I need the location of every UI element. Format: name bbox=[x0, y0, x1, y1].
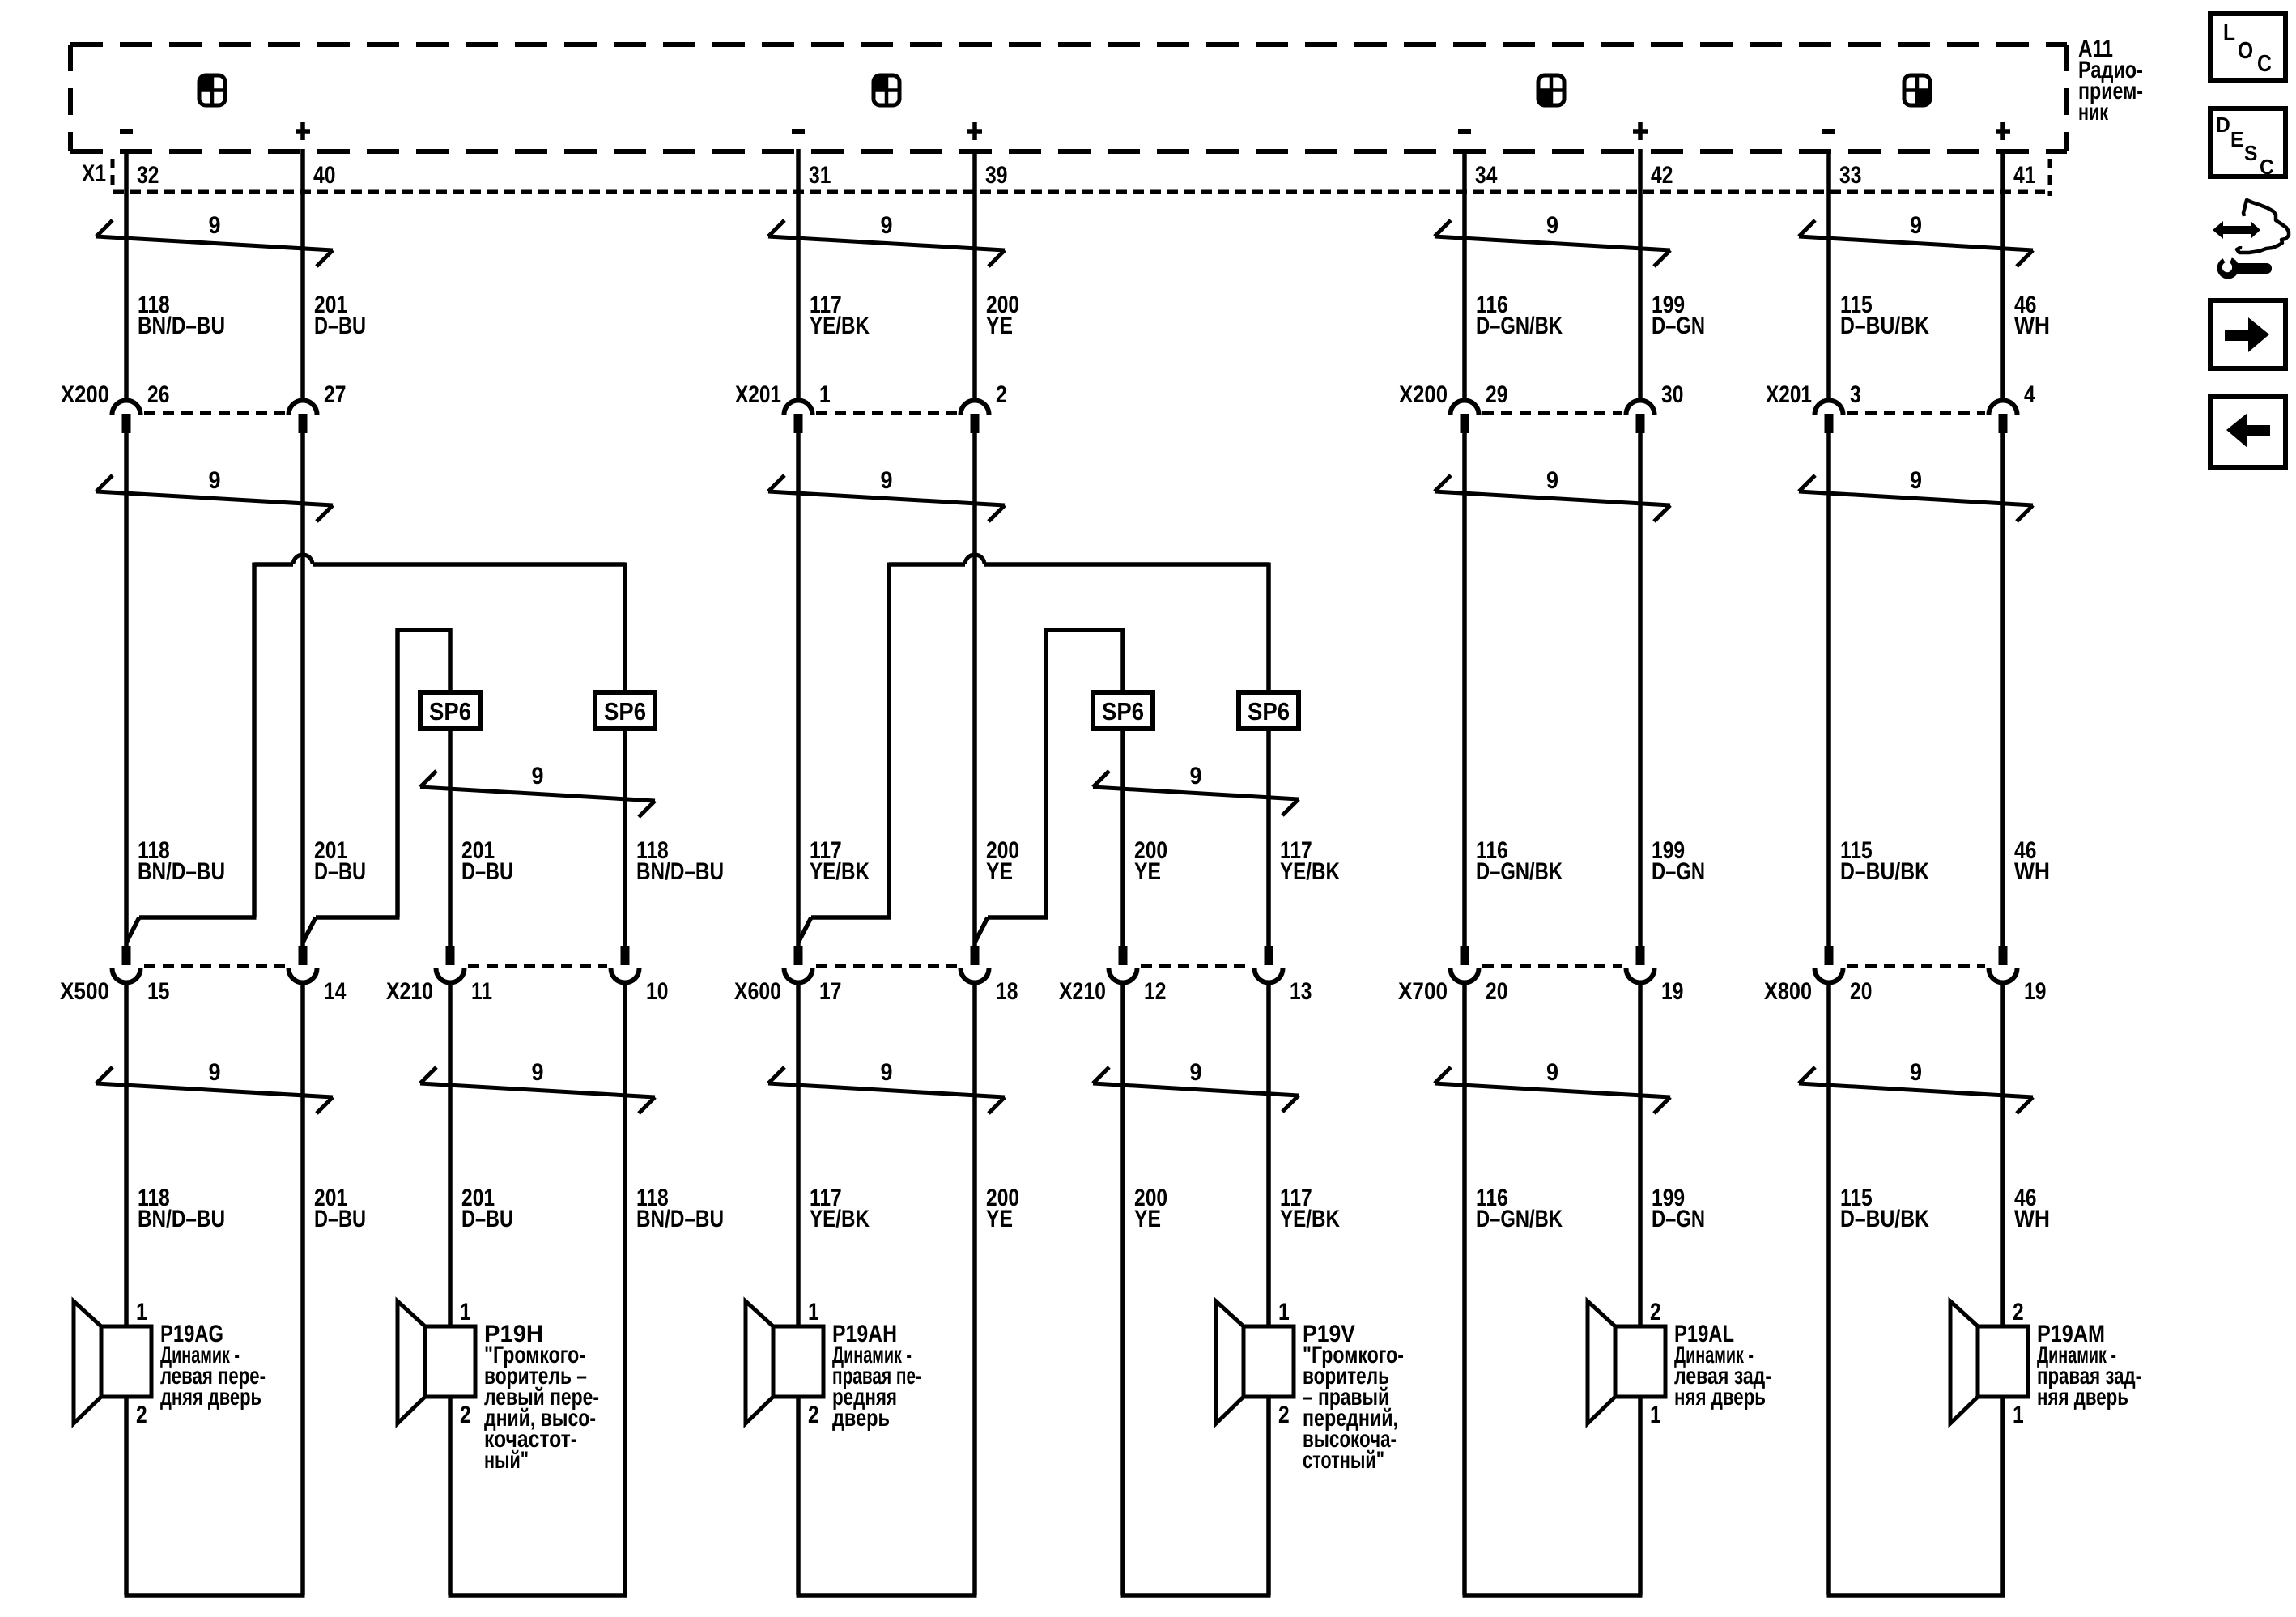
svg-text:1: 1 bbox=[136, 1299, 147, 1326]
svg-text:41: 41 bbox=[2013, 162, 2035, 189]
svg-text:D–BU/BK: D–BU/BK bbox=[1840, 1206, 1929, 1232]
svg-text:1: 1 bbox=[460, 1299, 471, 1326]
svg-text:13: 13 bbox=[1290, 978, 1312, 1005]
svg-text:31: 31 bbox=[809, 162, 831, 189]
svg-text:D–BU/BK: D–BU/BK bbox=[1840, 858, 1929, 885]
svg-text:39: 39 bbox=[985, 162, 1007, 189]
svg-text:12: 12 bbox=[1144, 978, 1166, 1005]
svg-text:D–BU: D–BU bbox=[314, 858, 366, 885]
svg-text:3: 3 bbox=[1850, 381, 1861, 408]
svg-text:9: 9 bbox=[1190, 763, 1202, 789]
svg-text:X500: X500 bbox=[60, 978, 109, 1005]
svg-text:SP6: SP6 bbox=[1102, 697, 1144, 726]
svg-text:YE: YE bbox=[986, 858, 1013, 885]
svg-text:BN/D–BU: BN/D–BU bbox=[636, 858, 724, 885]
svg-text:C: C bbox=[2260, 155, 2274, 179]
svg-text:1: 1 bbox=[1650, 1402, 1661, 1428]
svg-text:9: 9 bbox=[881, 212, 893, 239]
svg-text:YE/BK: YE/BK bbox=[810, 1206, 870, 1232]
svg-text:9: 9 bbox=[209, 1059, 221, 1086]
svg-text:O: O bbox=[2238, 38, 2253, 64]
svg-text:9: 9 bbox=[532, 1059, 544, 1086]
svg-text:29: 29 bbox=[1486, 381, 1507, 408]
svg-text:X210: X210 bbox=[1059, 978, 1106, 1005]
svg-text:19: 19 bbox=[2024, 978, 2046, 1005]
svg-text:D–GN/BK: D–GN/BK bbox=[1476, 858, 1563, 885]
svg-text:D: D bbox=[2216, 113, 2230, 137]
svg-text:9: 9 bbox=[1190, 1059, 1202, 1086]
svg-text:BN/D–BU: BN/D–BU bbox=[138, 313, 225, 339]
svg-text:9: 9 bbox=[1910, 1059, 1922, 1086]
svg-text:4: 4 bbox=[2024, 381, 2035, 408]
svg-text:D–BU: D–BU bbox=[314, 1206, 366, 1232]
svg-text:D–GN: D–GN bbox=[1652, 858, 1705, 885]
svg-text:SP6: SP6 bbox=[604, 697, 646, 726]
svg-text:D–BU: D–BU bbox=[461, 1206, 513, 1232]
svg-text:S: S bbox=[2244, 141, 2257, 165]
svg-text:дверь: дверь bbox=[832, 1405, 890, 1432]
svg-text:2: 2 bbox=[136, 1402, 147, 1428]
svg-text:BN/D–BU: BN/D–BU bbox=[138, 1206, 225, 1232]
svg-text:2: 2 bbox=[808, 1402, 819, 1428]
svg-text:X200: X200 bbox=[61, 381, 109, 408]
svg-text:X800: X800 bbox=[1764, 978, 1812, 1005]
svg-text:D–BU: D–BU bbox=[461, 858, 513, 885]
svg-text:D–GN: D–GN bbox=[1652, 1206, 1705, 1232]
svg-text:D–BU: D–BU bbox=[314, 313, 366, 339]
svg-text:X700: X700 bbox=[1398, 978, 1448, 1005]
svg-text:11: 11 bbox=[471, 978, 492, 1005]
svg-text:C: C bbox=[2257, 51, 2272, 77]
svg-text:стотный": стотный" bbox=[1303, 1447, 1384, 1474]
svg-text:няя дверь: няя дверь bbox=[2037, 1384, 2128, 1411]
svg-text:YE/BK: YE/BK bbox=[810, 313, 870, 339]
svg-text:D–GN: D–GN bbox=[1652, 313, 1705, 339]
svg-text:BN/D–BU: BN/D–BU bbox=[138, 858, 225, 885]
svg-text:30: 30 bbox=[1661, 381, 1683, 408]
svg-text:9: 9 bbox=[881, 1059, 893, 1086]
svg-text:2: 2 bbox=[1278, 1402, 1290, 1428]
svg-text:WH: WH bbox=[2014, 313, 2050, 339]
svg-text:SP6: SP6 bbox=[1248, 697, 1290, 726]
svg-text:34: 34 bbox=[1475, 162, 1498, 189]
svg-text:ный": ный" bbox=[484, 1447, 529, 1474]
svg-text:YE/BK: YE/BK bbox=[810, 858, 870, 885]
svg-text:2: 2 bbox=[996, 381, 1007, 408]
svg-text:27: 27 bbox=[324, 381, 346, 408]
svg-text:33: 33 bbox=[1839, 162, 1861, 189]
svg-text:9: 9 bbox=[1910, 467, 1922, 494]
svg-text:YE: YE bbox=[986, 1206, 1013, 1232]
svg-text:X201: X201 bbox=[1766, 381, 1812, 408]
svg-text:BN/D–BU: BN/D–BU bbox=[636, 1206, 724, 1232]
svg-text:YE: YE bbox=[986, 313, 1013, 339]
svg-text:15: 15 bbox=[147, 978, 169, 1005]
svg-text:9: 9 bbox=[209, 467, 221, 494]
svg-text:няя дверь: няя дверь bbox=[1674, 1384, 1766, 1411]
svg-text:20: 20 bbox=[1850, 978, 1872, 1005]
svg-text:9: 9 bbox=[1546, 212, 1558, 239]
svg-text:40: 40 bbox=[313, 162, 335, 189]
svg-text:2: 2 bbox=[460, 1402, 471, 1428]
svg-text:YE/BK: YE/BK bbox=[1280, 1206, 1340, 1232]
svg-text:X201: X201 bbox=[735, 381, 781, 408]
svg-text:18: 18 bbox=[996, 978, 1018, 1005]
svg-text:X1: X1 bbox=[82, 160, 106, 187]
svg-text:9: 9 bbox=[532, 763, 544, 789]
svg-text:14: 14 bbox=[324, 978, 347, 1005]
svg-text:YE/BK: YE/BK bbox=[1280, 858, 1340, 885]
svg-text:D–GN/BK: D–GN/BK bbox=[1476, 313, 1563, 339]
svg-text:D–GN/BK: D–GN/BK bbox=[1476, 1206, 1563, 1232]
svg-text:9: 9 bbox=[209, 212, 221, 239]
svg-text:9: 9 bbox=[1546, 1059, 1558, 1086]
svg-text:10: 10 bbox=[646, 978, 668, 1005]
svg-text:17: 17 bbox=[819, 978, 841, 1005]
svg-text:19: 19 bbox=[1661, 978, 1683, 1005]
svg-text:9: 9 bbox=[881, 467, 893, 494]
svg-text:2: 2 bbox=[1650, 1299, 1661, 1326]
svg-text:WH: WH bbox=[2014, 1206, 2050, 1232]
svg-text:26: 26 bbox=[147, 381, 169, 408]
svg-text:SP6: SP6 bbox=[429, 697, 471, 726]
svg-text:L: L bbox=[2223, 20, 2235, 46]
svg-text:X600: X600 bbox=[734, 978, 781, 1005]
svg-text:D–BU/BK: D–BU/BK bbox=[1840, 313, 1929, 339]
svg-text:YE: YE bbox=[1134, 858, 1161, 885]
svg-text:32: 32 bbox=[137, 162, 159, 189]
svg-text:X210: X210 bbox=[386, 978, 433, 1005]
svg-text:9: 9 bbox=[1546, 467, 1558, 494]
svg-text:1: 1 bbox=[819, 381, 831, 408]
svg-text:1: 1 bbox=[808, 1299, 819, 1326]
svg-text:E: E bbox=[2230, 127, 2243, 151]
svg-text:9: 9 bbox=[1910, 212, 1922, 239]
svg-text:YE: YE bbox=[1134, 1206, 1161, 1232]
svg-text:1: 1 bbox=[1278, 1299, 1290, 1326]
svg-text:ник: ник bbox=[2078, 99, 2109, 126]
svg-text:X200: X200 bbox=[1399, 381, 1448, 408]
svg-text:20: 20 bbox=[1486, 978, 1507, 1005]
svg-text:1: 1 bbox=[2013, 1402, 2024, 1428]
svg-text:2: 2 bbox=[2013, 1299, 2024, 1326]
svg-text:WH: WH bbox=[2014, 858, 2050, 885]
svg-text:42: 42 bbox=[1651, 162, 1673, 189]
svg-text:дняя дверь: дняя дверь bbox=[160, 1384, 261, 1411]
